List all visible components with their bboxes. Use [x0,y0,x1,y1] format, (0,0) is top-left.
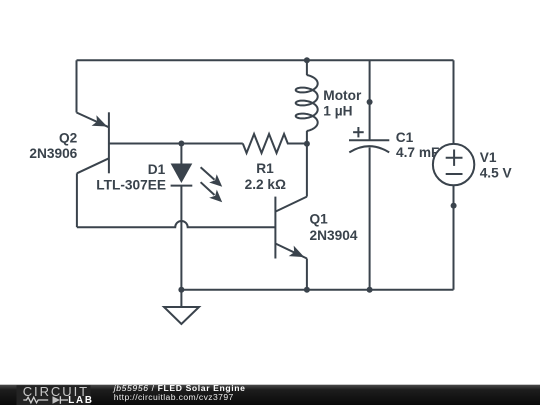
node on V1 bottom wire [451,203,457,209]
wire Q2 collector drop [76,173,78,227]
LED D1 emission arrow 1 [201,167,223,187]
wire left drop from top rail to Q2 emitter [76,60,78,112]
svg-text:4.5 V: 4.5 V [480,166,513,181]
node junction top rail x Motor [304,57,310,63]
svg-text:LTL-307EE: LTL-307EE [96,177,166,192]
svg-text:4.7 mF: 4.7 mF [396,145,439,160]
wire C1 top [369,60,371,140]
svg-text:1 µH: 1 µH [323,104,352,119]
node junction bottom rail x ground [178,287,184,293]
svg-text:Motor: Motor [323,88,362,103]
node junction R1/Motor/Q1 [304,141,310,147]
node junction on C1 top wire [367,99,373,105]
inductor Motor [296,60,318,143]
LED D1 [171,144,193,291]
wire Q1 collector up to node [306,144,308,197]
svg-text:LAB: LAB [68,395,93,405]
transistor Q1 [275,197,307,259]
wire Q2 base row [109,143,243,145]
ground [164,290,199,324]
svg-text:V1: V1 [480,150,497,165]
resistor R1 [243,134,307,153]
wire V1 bottom [453,185,455,289]
wire V1 top [453,60,455,144]
footer bar [0,385,540,405]
svg-text:Q1: Q1 [310,211,329,226]
wire Q1 emitter down [306,259,308,290]
node junction bottom rail x Q1 emitter [304,287,310,293]
svg-text:R1: R1 [256,161,274,176]
node junction bottom rail x C1 [367,287,373,293]
svg-text:2N3904: 2N3904 [310,228,358,243]
wire base row to Q1 with hop [77,221,276,227]
svg-text:http://circuitlab.com/cvz3797: http://circuitlab.com/cvz3797 [114,392,234,402]
transistor Q2 [77,112,109,173]
wire top rail [77,59,454,61]
voltage source V1 [433,144,474,185]
svg-text:2.2 kΩ: 2.2 kΩ [245,177,286,192]
svg-text:Q2: Q2 [59,130,78,145]
wire C1 bottom [369,148,371,290]
logo panel [17,385,91,405]
LED D1 emission arrow 2 [201,182,223,202]
capacitor C1 [349,127,389,152]
svg-text:D1: D1 [148,162,166,177]
node junction base row x D1 [178,141,184,147]
svg-text:2N3906: 2N3906 [29,146,77,161]
wire bottom rail [181,289,453,291]
svg-text:C1: C1 [396,130,414,145]
logo resistor-diode line [23,396,68,404]
